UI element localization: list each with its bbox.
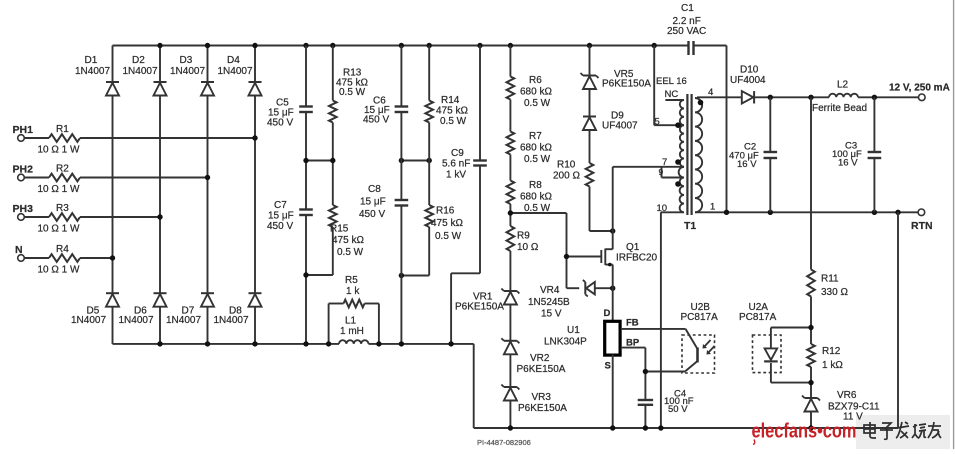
svg-text:4: 4 — [708, 87, 713, 98]
svg-text:R4: R4 — [56, 244, 69, 255]
svg-text:200 Ω: 200 Ω — [553, 171, 580, 182]
svg-text:D2: D2 — [132, 55, 145, 66]
svg-text:R2: R2 — [56, 164, 69, 175]
svg-text:15 V: 15 V — [541, 309, 562, 320]
svg-text:5: 5 — [655, 117, 660, 128]
svg-text:R3: R3 — [56, 203, 69, 214]
svg-text:R7: R7 — [529, 131, 542, 142]
svg-text:RTN: RTN — [911, 220, 933, 232]
svg-text:D1: D1 — [85, 55, 98, 66]
svg-text:1N4007: 1N4007 — [166, 315, 201, 326]
svg-text:NC: NC — [665, 89, 679, 100]
svg-text:P6KE150A: P6KE150A — [455, 302, 504, 313]
svg-text:50 V: 50 V — [668, 404, 688, 415]
svg-text:C1: C1 — [681, 3, 694, 14]
svg-text:R16: R16 — [436, 206, 455, 217]
svg-text:D3: D3 — [180, 55, 193, 66]
svg-text:D10: D10 — [740, 65, 759, 76]
svg-text:PC817A: PC817A — [739, 312, 777, 323]
svg-text:0.5 W: 0.5 W — [337, 247, 364, 258]
svg-text:1: 1 — [710, 202, 715, 213]
svg-text:UF4007: UF4007 — [602, 121, 638, 132]
svg-text:15 μF: 15 μF — [268, 211, 294, 222]
svg-text:1 kV: 1 kV — [446, 170, 466, 181]
svg-text:VR4: VR4 — [540, 285, 560, 296]
svg-text:680 kΩ: 680 kΩ — [520, 87, 552, 98]
svg-text:475 kΩ: 475 kΩ — [436, 106, 468, 117]
svg-text:9: 9 — [659, 167, 664, 177]
svg-text:T1: T1 — [684, 220, 696, 232]
svg-text:10 Ω: 10 Ω — [517, 242, 539, 253]
svg-text:1 k: 1 k — [346, 286, 360, 297]
svg-text:680 kΩ: 680 kΩ — [520, 192, 552, 203]
svg-text:P6KE150A: P6KE150A — [517, 364, 566, 375]
svg-text:VR3: VR3 — [532, 392, 552, 403]
svg-text:450 V: 450 V — [267, 221, 293, 232]
svg-text:450 V: 450 V — [363, 115, 389, 126]
svg-text:Q1: Q1 — [626, 242, 640, 253]
svg-text:C7: C7 — [274, 200, 287, 211]
svg-text:0.5 W: 0.5 W — [435, 231, 462, 242]
svg-text:10 Ω 1 W: 10 Ω 1 W — [38, 145, 80, 156]
svg-text:450 V: 450 V — [359, 209, 385, 220]
svg-text:15 μF: 15 μF — [360, 197, 386, 208]
svg-text:1N4007: 1N4007 — [71, 315, 106, 326]
svg-text:P6KE150A: P6KE150A — [602, 79, 651, 90]
svg-text:U1: U1 — [567, 325, 580, 336]
svg-text:R12: R12 — [822, 346, 841, 357]
svg-text:0.5 W: 0.5 W — [524, 98, 551, 109]
svg-text:1 mH: 1 mH — [340, 326, 364, 337]
svg-text:L1: L1 — [345, 316, 357, 327]
svg-text:330 Ω: 330 Ω — [821, 287, 848, 298]
svg-text:D4: D4 — [227, 55, 240, 66]
svg-text:IRFBC20: IRFBC20 — [616, 253, 658, 264]
svg-text:1 kΩ: 1 kΩ — [822, 360, 843, 371]
svg-text:R5: R5 — [345, 275, 358, 286]
svg-text:R9: R9 — [517, 231, 530, 242]
svg-text:5.6 nF: 5.6 nF — [442, 159, 470, 170]
svg-text:R8: R8 — [529, 180, 542, 191]
svg-text:PH3: PH3 — [13, 203, 34, 215]
svg-text:PH1: PH1 — [13, 124, 34, 136]
svg-text:1N4007: 1N4007 — [170, 66, 205, 77]
svg-text:S: S — [605, 361, 611, 372]
svg-text:VR6: VR6 — [837, 390, 857, 401]
svg-text:12 V, 250 mA: 12 V, 250 mA — [889, 83, 950, 94]
svg-text:16 V: 16 V — [737, 159, 757, 170]
svg-text:R6: R6 — [529, 75, 542, 86]
svg-text:L2: L2 — [837, 80, 849, 91]
svg-text:0.5 W: 0.5 W — [339, 87, 366, 98]
svg-text:R10: R10 — [557, 160, 576, 171]
svg-text:450 V: 450 V — [267, 118, 293, 129]
svg-text:R14: R14 — [441, 95, 460, 106]
svg-text:D: D — [604, 308, 611, 319]
svg-text:R1: R1 — [56, 124, 69, 135]
svg-text:1N4007: 1N4007 — [75, 66, 110, 77]
svg-text:N: N — [15, 244, 23, 256]
svg-text:1N4007: 1N4007 — [218, 66, 253, 77]
svg-text:FB: FB — [626, 318, 639, 329]
svg-text:10 Ω 1 W: 10 Ω 1 W — [38, 265, 80, 276]
svg-text:Ferrite Bead: Ferrite Bead — [812, 103, 867, 114]
svg-text:475 kΩ: 475 kΩ — [332, 235, 364, 246]
svg-text:R11: R11 — [821, 274, 839, 285]
svg-text:1N4007: 1N4007 — [119, 315, 154, 326]
svg-text:0.5 W: 0.5 W — [524, 154, 551, 165]
svg-text:PI-4487-082906: PI-4487-082906 — [477, 438, 531, 447]
svg-text:PH2: PH2 — [13, 164, 34, 176]
svg-text:C9: C9 — [451, 148, 464, 159]
svg-text:0.5 W: 0.5 W — [440, 116, 467, 127]
svg-text:1N5245B: 1N5245B — [528, 297, 570, 308]
svg-text:16 V: 16 V — [838, 158, 858, 169]
svg-text:EEL 16: EEL 16 — [656, 76, 687, 87]
svg-text:475 kΩ: 475 kΩ — [431, 218, 463, 229]
svg-text:1N4007: 1N4007 — [214, 315, 249, 326]
svg-text:P6KE150A: P6KE150A — [518, 403, 567, 414]
svg-text:10: 10 — [657, 203, 668, 214]
svg-text:UF4004: UF4004 — [730, 75, 766, 86]
svg-text:C8: C8 — [368, 184, 381, 195]
svg-text:680 kΩ: 680 kΩ — [520, 143, 552, 154]
svg-text:LNK304P: LNK304P — [544, 337, 587, 348]
svg-text:1N4007: 1N4007 — [123, 66, 158, 77]
svg-text:10 Ω 1 W: 10 Ω 1 W — [38, 224, 80, 235]
svg-text:PC817A: PC817A — [681, 312, 719, 323]
svg-text:250 VAC: 250 VAC — [667, 26, 706, 37]
svg-text:R15: R15 — [330, 224, 349, 235]
svg-text:VR2: VR2 — [530, 353, 550, 364]
svg-text:elecfans•com: elecfans•com — [752, 421, 857, 443]
svg-text:10 Ω 1 W: 10 Ω 1 W — [38, 184, 80, 195]
